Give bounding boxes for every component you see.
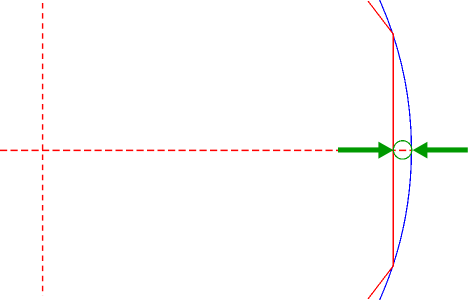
right green arrow head [413, 142, 428, 159]
left green arrow head [378, 142, 393, 159]
green dashed highlight circle [393, 141, 411, 159]
left green arrow shaft [338, 147, 379, 152]
right green arrow shaft [427, 147, 468, 152]
vertical dashed axis (center of curvature) [42, 3, 44, 296]
red chord plane polyline [368, 1, 393, 299]
horizontal dashed optical axis [0, 149, 412, 151]
blue spherical surface arc [380, 0, 412, 300]
